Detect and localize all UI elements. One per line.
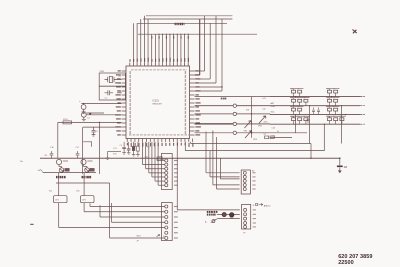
wire vertical from bus B to IC pin 4 <box>140 19 142 63</box>
wire strand x=210 to CN202 pin2 <box>209 151 211 177</box>
wire horizontal IC right pin to vertical <box>195 74 200 76</box>
wire y=238 to connector CN201 pin <box>110 237 165 239</box>
connector CN203 pin labels right <box>253 209 256 211</box>
IC U201 bottom pin-number labels outside <box>126 143 128 146</box>
IC U201 left pin row (pins 1-16) <box>122 70 126 72</box>
dark designation text W208 <box>56 176 57 178</box>
wire vertical x=324.3 rows down to corner <box>323 124 325 151</box>
svg-text:2P: 2P <box>137 241 140 243</box>
junction dot x=99.5 <box>99 122 100 123</box>
wire CT202 to Q202 <box>83 165 85 167</box>
IC U201 top pin row (pins 49-64) <box>129 63 131 66</box>
wire vertical x=111.5 to y=222.25 <box>111 203 113 222</box>
bus C pin-label ticks below <box>151 36 153 38</box>
ground under dark capacitor <box>132 151 136 156</box>
wire into CN203 pin 2 through capacitors <box>217 214 240 216</box>
wire strand x=220.4 to CN202 pin3 <box>219 158 221 179</box>
svg-text:R3: R3 <box>147 147 149 149</box>
wire TP4 continue right <box>237 132 308 134</box>
wire y=206.5 into connector <box>90 206 165 208</box>
IC U201 right pin row (pins 33-48) <box>190 70 195 72</box>
wire top horizontal bus A (y=15.8) <box>146 15 232 17</box>
wire vertical bus to IC pin 48 <box>199 19 201 75</box>
IC U201 (main microcontroller, QFP) body <box>126 66 190 139</box>
svg-text:Fb: Fb <box>38 170 41 172</box>
svg-text:AUDIO: AUDIO <box>264 204 271 207</box>
IC U201 internal pin-name rows (right edge) <box>184 71 186 135</box>
svg-text:B2: B2 <box>252 171 255 173</box>
capacitor string under IC pin at x=128.5 <box>127 142 131 154</box>
base rail y=172.6 <box>43 172 96 174</box>
wire horizontal bus C (y=34.2) <box>138 33 257 35</box>
ground below C203 <box>82 109 86 113</box>
connector CN202 pin labels right <box>252 172 255 174</box>
signal label TO M RAM +B <box>207 211 209 213</box>
resistor R230 dark body right of Q202 <box>90 168 95 171</box>
svg-text:C43: C43 <box>272 128 277 130</box>
svg-text:C42: C42 <box>262 109 267 111</box>
oscillator block X201 box (upper compartment) <box>99 73 125 86</box>
svg-text:CF2: CF2 <box>82 199 87 201</box>
resistor R224 on y=122.4 wire <box>63 121 72 124</box>
RC group row4 left <box>292 118 296 121</box>
wire TP2 continue right <box>237 113 271 115</box>
trimmer arrow VR202 <box>259 116 266 123</box>
svg-text:+: + <box>79 100 81 103</box>
RC group row1 left <box>292 90 296 93</box>
wire strand x=212.9 to CN202 pin4 <box>212 131 214 185</box>
capacitor C201 symbol in lower compartment <box>105 90 114 95</box>
svg-text:R41: R41 <box>246 110 249 112</box>
svg-text:VR2: VR2 <box>258 126 263 128</box>
inter-row capacitor ticks row3-row4 <box>307 117 310 124</box>
trimmer cap CT202 on rail <box>81 159 86 164</box>
ground below C204 <box>82 117 86 121</box>
electrolytic capacitor C231 dark <box>230 213 234 217</box>
RC group row2 right <box>328 99 332 102</box>
RC group row1 right <box>328 90 332 93</box>
wire base rail left stub <box>41 169 44 173</box>
wire IC bottom pin drop x=185.3 <box>184 142 186 151</box>
ceramic filter CF201 box <box>54 196 68 203</box>
svg-text:C21: C21 <box>113 148 118 150</box>
IC U201 internal pin-name row (bottom edge) <box>129 134 190 136</box>
transistor Q202 <box>85 168 90 173</box>
wire IC pin 42 right joining short row 5 (y=132.8) <box>195 132 234 134</box>
wire vertical x=82.5 from IC area down <box>82 127 84 174</box>
test point circle TP4 <box>233 131 236 134</box>
wire vertical bus to IC pins 44/43 <box>221 19 223 91</box>
svg-text:X2: X2 <box>119 83 122 85</box>
ground left cluster <box>106 158 110 159</box>
connector CN201 upper body <box>162 154 173 190</box>
svg-text:D: D <box>253 205 255 207</box>
wire Q201 down to filter <box>58 172 60 195</box>
svg-text:C17: C17 <box>76 147 81 149</box>
connector CN203 body <box>242 205 251 230</box>
connector CN202 pin circles <box>243 171 246 174</box>
IC U201 left pin-name labels outside <box>118 70 121 72</box>
wire IC pin 11 to electrolytic C204 (y=114.8) <box>86 114 122 116</box>
svg-text:SCL: SCL <box>271 111 276 113</box>
svg-text:R6: R6 <box>45 155 48 157</box>
resistor under IC at x=137.9 with label <box>137 142 139 146</box>
junction dots on rows <box>295 96 296 97</box>
wire horizontal IC right pin to vertical <box>195 78 211 80</box>
wire horizontal y=143.5 <box>191 143 311 145</box>
inter-row capacitor ticks row2-row3 <box>312 107 315 114</box>
IC U201 internal pin-name rows (left edge) <box>129 71 131 135</box>
wire vertical x=90 stub <box>89 203 91 206</box>
resistor R229 dark body right of Q201 <box>65 168 70 171</box>
test point circle TP1 <box>233 104 236 107</box>
wire IC pin 38 right joining row 3 (y=113.9) <box>195 113 234 115</box>
svg-text:X1: X1 <box>119 76 122 78</box>
svg-text:W01: W01 <box>137 236 142 238</box>
wire staircase IC bottom pins to CN201 pins <box>142 142 144 165</box>
svg-text:AGC: AGC <box>264 120 269 123</box>
RC group row3 left <box>292 108 296 111</box>
wire vertical x=109.6 down to y=238 <box>109 183 111 238</box>
RC group row4 right <box>328 118 332 121</box>
connector CN202 body <box>241 170 250 194</box>
connector CN201 pin circles group 2 <box>165 205 168 208</box>
svg-text:AFT: AFT <box>271 102 276 105</box>
component box pair near VR203 <box>265 136 269 139</box>
junction dot x=311 on +B rail <box>310 158 311 159</box>
arrow ground at C245 <box>338 171 341 173</box>
svg-text:R31: R31 <box>113 154 118 156</box>
dark designation text W209 <box>82 176 84 178</box>
capacitor C216 above rail at x=51.5 <box>50 151 54 158</box>
short row 6 (y=137.6) <box>270 137 292 139</box>
dark capacitor body under IC at x=133.5 <box>132 146 135 150</box>
svg-text:C9: C9 <box>120 145 122 147</box>
wire CF201 bottom down to y=227.5 <box>58 203 60 228</box>
capacitor C245 at +B rail end <box>339 157 341 159</box>
electrolytic capacitor C203 <box>81 105 86 110</box>
svg-text:C41: C41 <box>262 98 267 100</box>
supply row wire 2 (y=105.7) <box>270 105 360 107</box>
IC U201 bottom pin row (pins 17-33) <box>126 139 128 142</box>
supply row wire 4 (y=124.2) <box>270 123 360 125</box>
RC group row2 left <box>292 99 296 102</box>
wire +B rail long horizontal (y=158.2) <box>40 157 340 159</box>
svg-text:A-: A- <box>205 220 207 223</box>
wire vertical x=311 down to +B rail <box>310 144 312 159</box>
wire TP3 continue right <box>237 123 271 125</box>
wire vertical from bus C to IC pin 8 <box>154 34 156 62</box>
wire horizontal IC right pin to vertical <box>195 82 216 84</box>
svg-text:T01: T01 <box>49 191 53 193</box>
svg-text:VR1: VR1 <box>244 131 249 133</box>
wire vertical from bus B to IC pin 6 <box>147 19 149 63</box>
IC U201 right pin-name labels outside <box>195 70 198 72</box>
transistor Q201 <box>59 168 64 173</box>
wire vertical x=341.5 short drop <box>341 106 343 144</box>
wire corner top right of cluster <box>83 142 91 147</box>
small circle component on pin3 wire <box>212 220 215 223</box>
svg-text:Fb: Fb <box>20 161 23 163</box>
wire y=183 lower <box>56 182 110 184</box>
wire y=217 into connector <box>100 216 165 218</box>
wire top horizontal bus B2 (y=23.3) <box>137 22 227 24</box>
svg-text:CF1: CF1 <box>55 199 60 201</box>
RC group row3 right <box>328 108 332 111</box>
wire horizontal y=150.6 <box>185 150 324 152</box>
wire crystal box to IC pin rows <box>117 79 122 81</box>
wire IC pin 35 right joining row 1 (y=96.6) <box>195 96 270 98</box>
wire y=222.25 to connector CN201 pin <box>112 221 165 223</box>
connector CN201 lower body <box>162 203 173 241</box>
wire IC pin 40 right joining row 4 (y=123.9, heavy) <box>195 123 234 125</box>
wire IC pin 9 to electrolytic C203 (y=103.6) <box>81 103 121 105</box>
row3 jog to TP2 wire <box>269 113 271 116</box>
trimmer arrow VR201 <box>245 121 252 128</box>
svg-text:22500: 22500 <box>338 260 354 266</box>
svg-text:C44: C44 <box>272 135 277 137</box>
connector CN201 pin circles group 1 <box>165 159 168 162</box>
ceramic filter CF202 box <box>81 196 95 203</box>
row4 jog <box>269 123 271 125</box>
wire IC pin 15 left (y=127.1) <box>83 126 122 128</box>
wire vertical from bus A to IC pin 5 <box>143 16 145 63</box>
bus label C232 on bus B2 <box>175 23 176 25</box>
wire vertical x=99.5 from y=122.4 down to lower rail <box>99 122 101 173</box>
label smudge on row 1 <box>221 98 223 100</box>
wire x=177 vertical from IC bottom pin down to CN203 <box>176 142 178 210</box>
electrolytic capacitor C204 <box>81 112 86 117</box>
wire vertical x=309.5 rows to lower routing <box>309 106 311 144</box>
wire IC pin 13 long left (y=122.4) <box>58 121 122 123</box>
IC U201 top pin-number labels outside <box>129 59 131 62</box>
small arrow mark on bottom wire <box>157 235 160 237</box>
svg-text:MN15287: MN15287 <box>153 103 163 105</box>
wire strand x=206 to connector CN202 pin1 <box>205 132 207 173</box>
left margin tick <box>30 223 33 225</box>
svg-text:T02: T02 <box>76 191 80 193</box>
label marks right of CT201 <box>63 160 68 162</box>
wire into CN203 pin 1 from x=177 riser <box>177 209 240 211</box>
connector CN203 pin circles <box>244 208 247 211</box>
wire vertical from bus B2 to IC pin 3 <box>136 23 138 62</box>
wire vertical from bus B2 to IC pin 2 <box>132 23 134 62</box>
wire vertical from bus C to IC pin 7 <box>151 34 153 62</box>
svg-text:C4: C4 <box>87 118 90 120</box>
wire into CN201 pin 1 <box>157 160 165 162</box>
test point circle TP3 <box>233 122 236 125</box>
wire y=211.75 to connector CN201 pin <box>84 211 165 213</box>
wire IC pin 43 to vertical <box>195 90 222 92</box>
wire into CN203 pin 3 <box>217 218 239 220</box>
capacitor C206 hanging at x=93.5 <box>92 127 96 136</box>
svg-text:2P: 2P <box>243 233 246 235</box>
wire IC bottom pin drop x=190.6 <box>190 142 192 144</box>
bus C junction dots <box>158 34 159 35</box>
stray pen mark upper right <box>353 30 357 34</box>
supply row wire 3 (y=114.6) <box>270 114 360 116</box>
junction blob on y=113 wire <box>89 113 91 115</box>
label marks right of CT202 <box>87 160 92 162</box>
wire vertical x=251.5 <box>251 97 253 138</box>
trimmer arrow VR203 <box>245 131 252 138</box>
wire strand x=216.5 to CN202 pin5 <box>216 137 218 189</box>
trimmer cap CT201 on rail <box>56 159 61 164</box>
oscillator block lower compartment <box>99 86 125 100</box>
IC U201 internal pin-name row (top edge) <box>131 69 187 71</box>
wire vertical bus to IC pin 45 <box>215 16 217 83</box>
svg-text:C16: C16 <box>50 147 55 149</box>
wire CF202 bottom down to y=211.75 <box>83 203 85 212</box>
wire vertical x=295.5 short drop <box>295 115 297 133</box>
junction dots on x=251.5 <box>251 113 252 114</box>
supply row wire 1 (y=96.6) <box>270 96 360 98</box>
wire Q202 down to filter <box>83 172 85 195</box>
crystal X201 symbol <box>105 76 118 82</box>
wire CT201 to Q201 <box>58 165 60 167</box>
wire IC pin 44 to vertical with junction <box>195 86 222 88</box>
connector CN201 pin labels <box>174 160 178 162</box>
wire top horizontal bus B (y=19) <box>143 18 232 20</box>
wire verticals bus C down to IC top pins <box>158 34 160 62</box>
svg-text:C2: C2 <box>105 98 108 100</box>
wire TP1 continue right <box>237 105 271 107</box>
wire y=113 stub <box>86 112 104 114</box>
svg-text:05: 05 <box>277 131 279 133</box>
svg-text:VR3: VR3 <box>253 139 258 141</box>
wire vertical bus to IC pin 47 <box>204 16 206 71</box>
electrolytic capacitor C230 dark <box>222 213 226 217</box>
wire IC pin 36 right joining row 2 (y=105.7) <box>195 105 234 107</box>
capacitor C217 above rail at x=77.5 <box>76 151 80 158</box>
test point circle TP2 <box>233 112 236 115</box>
wire horizontal stub in cluster <box>108 151 122 153</box>
svg-text:C6: C6 <box>95 131 98 133</box>
capacitor string under IC pin at x=124 <box>122 142 126 154</box>
wire vertical bus to IC pin 46 <box>209 23 211 79</box>
wire horizontal IC right pin to vertical <box>195 70 205 72</box>
wire vertical x=57.8 down to transistor rail <box>57 122 59 157</box>
wire y=227.5 to connector CN201 pin <box>59 227 165 229</box>
svg-text:A8: A8 <box>344 165 348 169</box>
junction dot at C203 <box>83 103 84 104</box>
svg-text:IC201: IC201 <box>153 100 160 103</box>
wire vertical x=100 stub <box>99 205 101 217</box>
row end hooks <box>360 96 365 98</box>
